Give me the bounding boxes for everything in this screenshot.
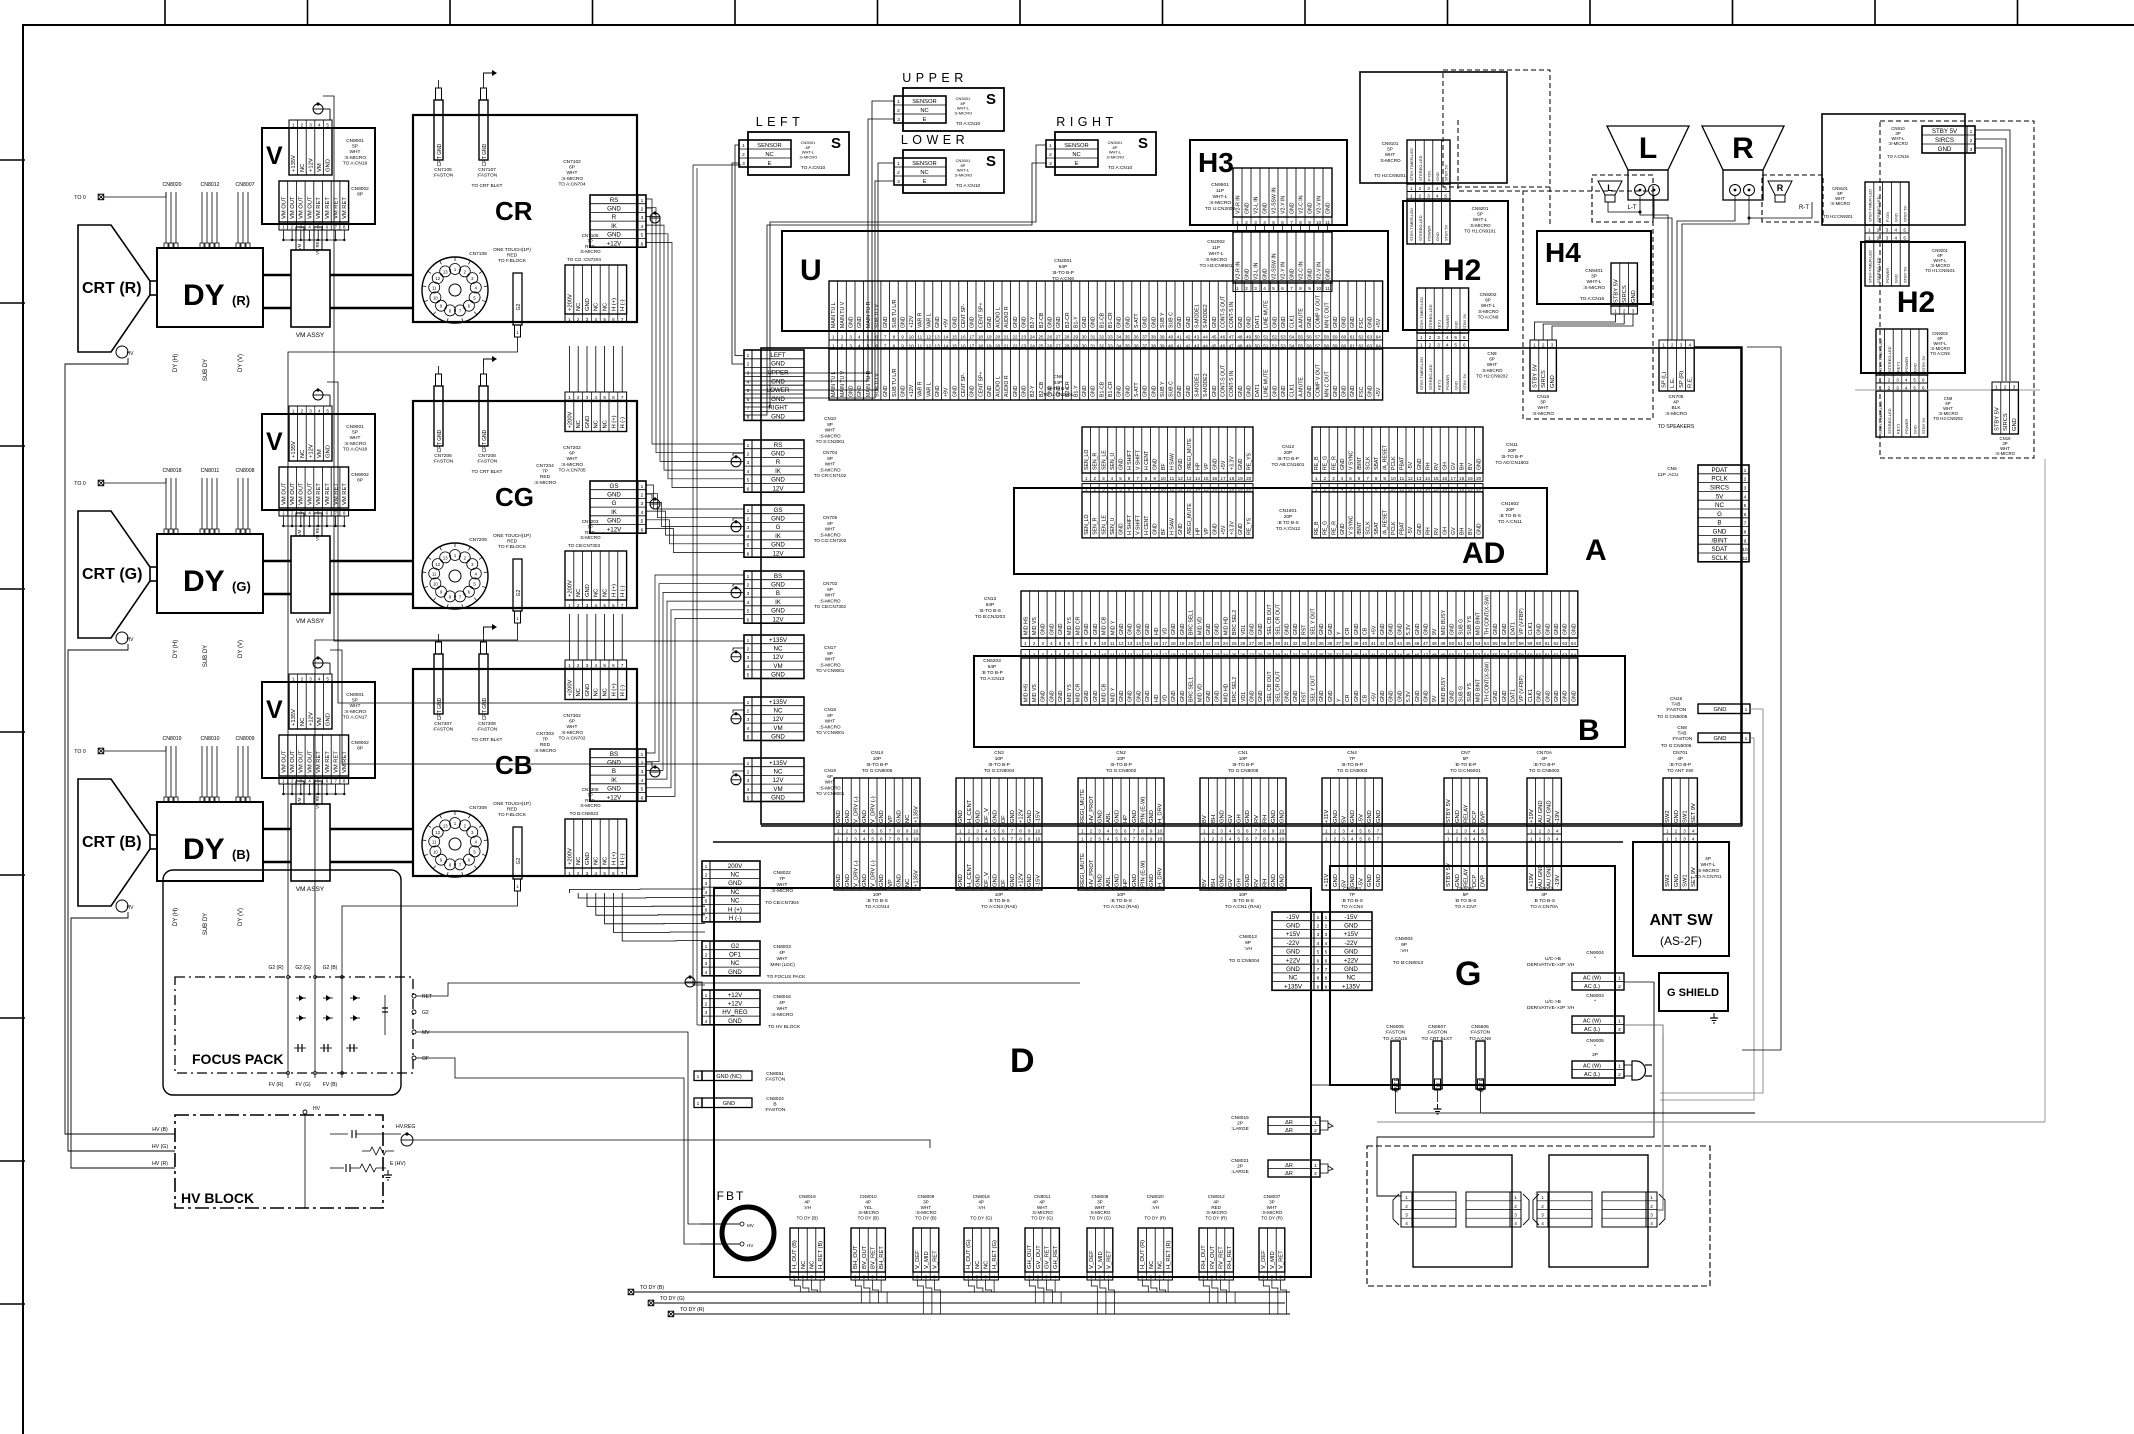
svg-text:GND: GND <box>862 810 868 823</box>
svg-text:WHT: WHT <box>1095 1205 1106 1210</box>
wires between +200V strips (G) <box>568 346 570 392</box>
svg-text:35: 35 <box>1319 653 1325 658</box>
svg-text:6: 6 <box>612 317 615 322</box>
svg-text:6: 6 <box>1922 378 1925 383</box>
svg-text:3: 3 <box>1042 653 1045 658</box>
svg-text:LOWER: LOWER <box>767 387 790 394</box>
svg-text:3: 3 <box>1896 378 1899 383</box>
svg-text:4: 4 <box>1317 941 1320 947</box>
svg-text:GND: GND <box>1537 623 1543 635</box>
svg-text:HV_PROT: HV_PROT <box>1089 795 1095 823</box>
svg-text:4: 4 <box>1473 837 1476 842</box>
svg-text:VM RET: VM RET <box>316 751 322 773</box>
svg-text:FOCUS PACK: FOCUS PACK <box>192 1051 284 1067</box>
svg-text:GND: GND <box>1713 529 1727 536</box>
svg-text:GV_OUT: GV_OUT <box>1036 1245 1042 1269</box>
svg-text:V2-C IN: V2-C IN <box>1299 195 1305 214</box>
svg-text:V2-SSW IN: V2-SSW IN <box>1272 253 1278 280</box>
svg-text:MID HD: MID HD <box>1223 683 1229 702</box>
svg-text:V: V <box>266 696 283 724</box>
svg-text:TO DY (B): TO DY (B) <box>640 1285 664 1291</box>
svg-text:3: 3 <box>1547 837 1550 842</box>
power block G <box>1330 866 1615 1085</box>
svg-text:TO H2:CN9201: TO H2:CN9201 <box>1374 173 1406 178</box>
svg-text:TO CB:CN7302: TO CB:CN7302 <box>814 604 847 609</box>
svg-text:5: 5 <box>993 829 996 834</box>
svg-text:GND: GND <box>771 414 785 421</box>
svg-text:SEN_LE: SEN_LE <box>1101 450 1107 470</box>
svg-text:1: 1 <box>916 1275 919 1280</box>
svg-text:GND: GND <box>1245 810 1251 823</box>
svg-text::FASTON: :FASTON <box>1672 736 1693 742</box>
svg-text:60: 60 <box>1536 641 1542 646</box>
svg-text:1: 1 <box>568 663 571 668</box>
svg-text:DY (V): DY (V) <box>238 640 244 658</box>
svg-text:64: 64 <box>1571 641 1577 646</box>
svg-text:1: 1 <box>747 761 750 767</box>
svg-text:NC: NC <box>1157 1261 1163 1269</box>
svg-text:GND: GND <box>1380 690 1386 702</box>
svg-text:GND: GND <box>1058 623 1064 635</box>
svg-text:CN1601: CN1601 <box>1279 508 1297 514</box>
svg-text:BRC SEL2: BRC SEL2 <box>1232 610 1238 635</box>
svg-text::MINI (LDC): :MINI (LDC) <box>769 962 795 968</box>
strip CN9 right <box>1876 383 1928 391</box>
svg-text:GND: GND <box>1350 316 1356 328</box>
strip CN9202 right <box>1876 329 1928 375</box>
svg-text:PCLK: PCLK <box>1711 476 1728 483</box>
svg-text:3: 3 <box>747 655 750 661</box>
svg-text:3: 3 <box>1405 1213 1408 1218</box>
svg-text:DCP: DCP <box>1472 811 1478 823</box>
sheet border frame left line <box>22 25 24 1434</box>
svg-text:2: 2 <box>846 829 849 834</box>
svg-text:TO V:CN9001: TO V:CN9001 <box>816 791 845 796</box>
svg-text:CENT SP+: CENT SP+ <box>978 303 984 328</box>
svg-text:GND: GND <box>987 316 993 328</box>
svg-text:CN8012: CN8012 <box>1208 1194 1225 1199</box>
svg-text:4: 4 <box>747 664 750 670</box>
svg-text:AD: AD <box>1462 537 1505 570</box>
svg-text:HD: HD <box>1154 694 1160 702</box>
svg-text:V: V <box>266 428 283 456</box>
svg-text:56: 56 <box>1307 334 1313 339</box>
svg-text:GND: GND <box>1117 316 1123 328</box>
svg-text:GND: GND <box>1125 385 1131 397</box>
svg-text:VM: VM <box>297 797 302 804</box>
svg-text:LINE MUTE: LINE MUTE <box>1264 369 1270 397</box>
svg-text:CRT (G): CRT (G) <box>82 566 142 583</box>
svg-text:29: 29 <box>1266 653 1272 658</box>
svg-text:HV (G): HV (G) <box>152 1144 168 1150</box>
connector CN9002 (R) <box>279 181 349 222</box>
svg-text:2: 2 <box>1542 343 1545 348</box>
connector CN8015 table <box>1268 1117 1311 1134</box>
svg-text:14: 14 <box>1136 653 1142 658</box>
svg-text:22: 22 <box>1012 334 1018 339</box>
svg-text:4: 4 <box>1050 641 1053 646</box>
svg-text:GND: GND <box>1238 385 1244 397</box>
svg-text:4: 4 <box>1167 1275 1170 1280</box>
svg-text:MID VD: MID VD <box>1197 617 1203 635</box>
svg-text:11: 11 <box>432 286 437 291</box>
svg-text:12: 12 <box>1118 641 1124 646</box>
svg-text:1: 1 <box>1533 343 1536 348</box>
connector CN6004 AC table <box>1572 973 1615 990</box>
svg-text:RV: RV <box>1254 815 1260 823</box>
svg-text:STEREO-LED: STEREO-LED <box>1876 196 1881 222</box>
svg-text:3: 3 <box>1102 476 1105 481</box>
svg-text:13: 13 <box>443 555 448 560</box>
svg-text:2: 2 <box>641 207 644 213</box>
svg-text:CN6: CN6 <box>1053 374 1063 380</box>
svg-text:BH: BH <box>1211 815 1217 823</box>
svg-text:STBY 5V: STBY 5V <box>1921 355 1926 372</box>
svg-text:2: 2 <box>1245 220 1248 225</box>
svg-text:GND: GND <box>1493 690 1499 702</box>
svg-text:5P: 5P <box>1477 212 1483 217</box>
svg-text:STBY 5V: STBY 5V <box>1994 407 2000 431</box>
svg-text:WHT-L: WHT-L <box>1587 279 1602 285</box>
fan wires video to A connectors <box>646 199 744 444</box>
svg-text:4: 4 <box>641 510 644 516</box>
svg-text:2: 2 <box>641 761 644 767</box>
svg-text:+200V: +200V <box>567 848 573 865</box>
svg-text:1: 1 <box>705 944 708 950</box>
svg-text:CN7208: CN7208 <box>478 453 496 459</box>
svg-text:6: 6 <box>1325 958 1328 964</box>
svg-text:7: 7 <box>334 511 337 516</box>
svg-text:5: 5 <box>603 871 606 876</box>
deflection yoke DY (B) <box>157 802 263 881</box>
svg-text:6: 6 <box>326 779 329 784</box>
connector CN17 table <box>744 635 804 679</box>
svg-text:18: 18 <box>1229 486 1235 491</box>
svg-text:4: 4 <box>1341 486 1344 491</box>
svg-text:20P: 20P <box>1508 448 1517 454</box>
svg-text:TO A:CN70A: TO A:CN70A <box>1530 904 1558 910</box>
svg-text:10: 10 <box>913 829 919 834</box>
svg-text:GND: GND <box>1171 623 1177 635</box>
svg-text:GND: GND <box>1118 523 1124 535</box>
sensor box LEFT <box>748 132 849 175</box>
svg-text:VM RET: VM RET <box>315 793 320 809</box>
svg-text:GND: GND <box>1477 523 1483 535</box>
svg-text:WHT-L: WHT-L <box>1701 862 1716 868</box>
svg-text:4: 4 <box>993 1275 996 1280</box>
svg-text:CRT (R): CRT (R) <box>82 280 142 297</box>
svg-text:GND: GND <box>728 969 742 976</box>
svg-text:IK: IK <box>611 509 618 516</box>
deflection board block D <box>714 888 1311 1277</box>
svg-text:48: 48 <box>1237 334 1243 339</box>
svg-text:VAR L: VAR L <box>926 313 932 328</box>
video output block CB <box>413 669 637 876</box>
svg-text:GND: GND <box>1171 690 1177 702</box>
HV wires down left side <box>65 358 175 1134</box>
sensor box UPPER <box>903 88 1004 131</box>
svg-text:GND: GND <box>896 874 902 887</box>
svg-text:HV (R): HV (R) <box>152 1161 168 1167</box>
svg-text:2: 2 <box>1877 228 1880 233</box>
faston CN5005 <box>1391 1041 1400 1089</box>
svg-text:GND: GND <box>1132 874 1138 887</box>
svg-text::S-MICRO: :S-MICRO <box>1665 411 1687 417</box>
svg-text:VP: VP <box>888 815 894 823</box>
svg-text:15: 15 <box>1145 653 1151 658</box>
HV block components <box>330 1133 348 1135</box>
svg-text:2: 2 <box>301 677 304 682</box>
svg-text:14: 14 <box>1195 486 1201 491</box>
svg-text:1: 1 <box>1028 1275 1031 1280</box>
svg-text:36: 36 <box>1327 653 1333 658</box>
svg-text:1: 1 <box>747 638 750 644</box>
svg-text:7: 7 <box>1136 476 1139 481</box>
svg-text:CN9101: CN9101 <box>1382 141 1399 146</box>
svg-text:59: 59 <box>1332 334 1338 339</box>
svg-text:SIRCS: SIRCS <box>2003 413 2009 431</box>
block H2 right <box>1861 242 1965 373</box>
svg-text:V_DEF: V_DEF <box>1261 1250 1267 1269</box>
svg-text:G2: G2 <box>731 943 740 950</box>
svg-text:6: 6 <box>1124 829 1127 834</box>
svg-text:TO A:CN14: TO A:CN14 <box>865 904 890 910</box>
svg-text:3: 3 <box>1254 286 1257 291</box>
svg-text:26: 26 <box>1047 334 1053 339</box>
svg-text:11P: 11P <box>1216 188 1224 194</box>
svg-text:MID HS: MID HS <box>1023 616 1029 635</box>
svg-text:4P: 4P <box>804 1199 810 1204</box>
svg-text:*: * <box>1594 956 1596 962</box>
svg-text:38: 38 <box>1345 641 1351 646</box>
svg-text:H4: H4 <box>1545 237 1581 268</box>
svg-text:AU GND: AU GND <box>1546 864 1552 887</box>
svg-text::B-TO B-P: :B-TO B-P <box>1277 456 1299 462</box>
connector CN8008 strip <box>1087 1228 1113 1272</box>
svg-text:CN8024: CN8024 <box>766 1096 784 1102</box>
svg-text:8: 8 <box>1325 976 1328 982</box>
svg-text::B-TO B-P: :B-TO B-P <box>1501 454 1523 460</box>
svg-text:30: 30 <box>1082 334 1088 339</box>
svg-text:RV_RET: RV_RET <box>1218 1246 1224 1269</box>
svg-text:6: 6 <box>1128 476 1131 481</box>
svg-text:6P: 6P <box>1489 357 1495 362</box>
svg-text:GND: GND <box>1212 523 1218 535</box>
svg-text:TO H3:CN9501: TO H3:CN9501 <box>1200 263 1233 269</box>
svg-text:3: 3 <box>1332 486 1335 491</box>
svg-text:GND: GND <box>1013 316 1019 328</box>
svg-text:5: 5 <box>747 796 750 802</box>
svg-text:TO A:CN704: TO A:CN704 <box>558 181 585 187</box>
video amp block V (R) <box>262 128 375 224</box>
svg-text:2: 2 <box>705 1002 708 1008</box>
connector CN8037 strip <box>1259 1228 1285 1272</box>
svg-text:GND: GND <box>1082 385 1088 397</box>
svg-text:SEL CR OUT: SEL CR OUT <box>1276 603 1282 635</box>
svg-text:10P: 10P <box>995 756 1004 762</box>
svg-text:55: 55 <box>1493 653 1499 658</box>
svg-text:RIGHT: RIGHT <box>768 405 787 412</box>
svg-text:GND: GND <box>1293 623 1299 635</box>
svg-text:RE_R: RE_R <box>1331 456 1337 470</box>
degauss pins left-left <box>1401 1192 1412 1227</box>
gray separator line <box>1855 389 2040 391</box>
svg-text:WHT: WHT <box>777 1006 788 1012</box>
svg-text:5: 5 <box>1272 220 1275 225</box>
FBT flyback transformer <box>722 1207 774 1259</box>
svg-text:2: 2 <box>1033 653 1036 658</box>
svg-text:/BINT: /BINT <box>1712 537 1728 544</box>
svg-text:RELAY: RELAY <box>1463 804 1469 823</box>
svg-text:GND: GND <box>1178 458 1184 470</box>
svg-text:5P: 5P <box>1463 756 1469 762</box>
svg-text:2: 2 <box>1212 829 1215 834</box>
svg-text:63: 63 <box>1367 334 1373 339</box>
svg-text:CONT-S OUT: CONT-S OUT <box>1221 295 1227 328</box>
svg-text:5: 5 <box>317 511 320 516</box>
svg-text:S-MODE2: S-MODE2 <box>1203 373 1209 397</box>
svg-text:WHT: WHT <box>825 657 836 662</box>
strip CN9202 left <box>1417 288 1469 333</box>
connector CN19 table <box>744 758 804 802</box>
svg-text:25: 25 <box>1232 653 1238 658</box>
svg-text:3P: 3P <box>1097 1199 1103 1204</box>
svg-text:CN8018: CN8018 <box>973 1194 990 1199</box>
svg-text:3: 3 <box>747 778 750 784</box>
svg-text:9: 9 <box>1153 476 1156 481</box>
svg-text:3: 3 <box>309 677 312 682</box>
connector CN9401 strip <box>1611 263 1637 306</box>
svg-text::FASTON: :FASTON <box>1470 1030 1491 1036</box>
svg-text:12: 12 <box>435 562 440 567</box>
svg-text:6: 6 <box>1317 958 1320 964</box>
svg-text:3: 3 <box>1220 837 1223 842</box>
svg-text:DAT1: DAT1 <box>1255 315 1261 328</box>
svg-text:DY (H): DY (H) <box>173 640 179 658</box>
connector pair CN4/CN5003 <box>1322 778 1382 826</box>
svg-text:DF_V: DF_V <box>984 808 990 823</box>
degauss pins left-right <box>1466 1192 1510 1227</box>
svg-text:3: 3 <box>300 225 303 230</box>
svg-text:GND: GND <box>585 584 591 597</box>
svg-text:10P: 10P <box>995 892 1004 898</box>
svg-text:B1-CB: B1-CB <box>1099 381 1105 397</box>
svg-text:V SYNC: V SYNC <box>1348 450 1354 470</box>
svg-text:6: 6 <box>1358 486 1361 491</box>
svg-text:UPPER: UPPER <box>902 71 968 85</box>
svg-text:7P: 7P <box>1349 892 1355 898</box>
svg-text:GND: GND <box>1084 690 1090 702</box>
svg-text:TO H2:CN9202: TO H2:CN9202 <box>1933 416 1963 421</box>
svg-text:5: 5 <box>867 334 870 339</box>
svg-text:CN8010: CN8010 <box>860 1194 877 1199</box>
svg-text:4: 4 <box>1263 220 1266 225</box>
svg-text:1: 1 <box>1420 343 1423 348</box>
svg-text:56: 56 <box>1501 641 1507 646</box>
svg-text:TO CRT BLKT: TO CRT BLKT <box>1422 1036 1453 1042</box>
solid box H1 left <box>1360 72 1507 183</box>
svg-text:2: 2 <box>291 225 294 230</box>
svg-text:*: * <box>1594 999 1596 1005</box>
svg-text:CN7308: CN7308 <box>478 721 496 727</box>
svg-text:3: 3 <box>1514 1213 1517 1218</box>
svg-text:NC: NC <box>603 420 609 428</box>
svg-text:4: 4 <box>308 511 311 516</box>
svg-text:H CENT: H CENT <box>1144 515 1150 535</box>
svg-text:25: 25 <box>1038 334 1044 339</box>
svg-text:ΔR: ΔR <box>1285 1163 1293 1169</box>
svg-text:6: 6 <box>1744 512 1747 518</box>
svg-text:WHT: WHT <box>1385 152 1396 157</box>
svg-text:4: 4 <box>595 663 598 668</box>
svg-text:6: 6 <box>747 486 750 492</box>
svg-text:RH: RH <box>1262 879 1268 887</box>
svg-text:RED: RED <box>540 742 551 748</box>
svg-text:13: 13 <box>935 334 941 339</box>
svg-text:GND: GND <box>993 810 999 823</box>
svg-text:3: 3 <box>1886 228 1889 233</box>
svg-text:SEL CB OUT: SEL CB OUT <box>1267 671 1273 702</box>
svg-text:GND: GND <box>1286 923 1300 930</box>
svg-text:4: 4 <box>1111 476 1114 481</box>
svg-text:4: 4 <box>308 779 311 784</box>
svg-text:1: 1 <box>1650 1195 1653 1200</box>
svg-text:3P: 3P <box>1269 1199 1275 1204</box>
svg-text:CN5: CN5 <box>1667 466 1677 472</box>
faston CN6607 <box>1433 1041 1442 1089</box>
svg-text:VM: VM <box>773 786 782 793</box>
svg-text:+12V: +12V <box>308 444 314 458</box>
svg-text:SEL Y OUT: SEL Y OUT <box>1310 674 1316 702</box>
svg-text:1: 1 <box>1514 1195 1517 1200</box>
svg-text:4: 4 <box>1556 837 1559 842</box>
svg-text:1: 1 <box>1970 129 1973 135</box>
svg-text:SUB G: SUB G <box>1458 686 1464 702</box>
svg-text:37: 37 <box>1336 653 1342 658</box>
svg-text:TO A:CN17: TO A:CN17 <box>343 714 368 720</box>
svg-text:GND: GND <box>1250 623 1256 635</box>
svg-text:TO DY (B): TO DY (B) <box>858 1216 880 1221</box>
svg-text:17: 17 <box>1451 486 1457 491</box>
svg-text:5: 5 <box>705 899 708 905</box>
svg-text:9: 9 <box>1028 829 1031 834</box>
svg-text:GND: GND <box>1271 810 1277 823</box>
svg-text:7: 7 <box>621 663 624 668</box>
svg-text:12: 12 <box>435 830 440 835</box>
faston ground <box>1437 1104 1439 1109</box>
svg-text:WHT: WHT <box>825 428 836 433</box>
sheet border frame top line <box>22 24 2134 26</box>
svg-text:5: 5 <box>747 673 750 679</box>
svg-text:GH: GH <box>1237 814 1243 823</box>
CRT (R) picture tube <box>78 225 150 352</box>
svg-text:GND: GND <box>1115 810 1121 823</box>
svg-text:9: 9 <box>1150 829 1153 834</box>
svg-text:VP: VP <box>888 879 894 887</box>
svg-text:TO A:CN9: TO A:CN9 <box>1930 351 1950 356</box>
svg-text:2: 2 <box>747 709 750 715</box>
svg-text:+135V: +135V <box>769 637 788 644</box>
svg-text:8P: 8P <box>357 746 363 752</box>
svg-text:GND: GND <box>1714 707 1727 713</box>
CRT socket CN710x (B) <box>422 811 488 877</box>
svg-text:B: B <box>773 1102 776 1108</box>
AC plug symbol <box>1632 1061 1646 1080</box>
svg-text:GS: GS <box>774 507 783 514</box>
svg-text:3: 3 <box>1220 829 1223 834</box>
svg-text:+22V: +22V <box>1286 957 1301 964</box>
svg-text:13: 13 <box>1186 476 1192 481</box>
